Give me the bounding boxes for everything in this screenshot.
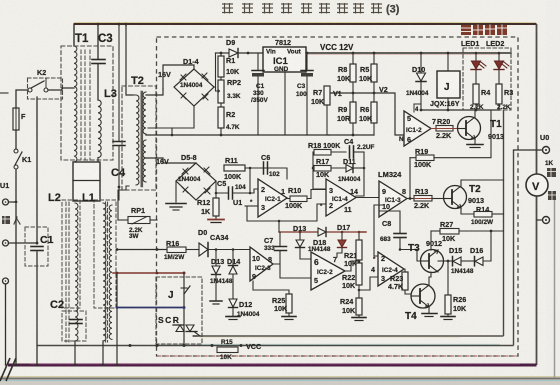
relay J coil box <box>437 71 460 98</box>
wire T1 left column / primary winding <box>73 24 75 46</box>
wire IC1-3 pin10 down to C8 node <box>379 205 400 233</box>
op-amp IC1-2 <box>404 111 431 146</box>
junction dots on vcc line <box>129 344 132 347</box>
resistor R5 <box>373 53 375 64</box>
transistor T2 <box>444 186 467 209</box>
switch K2 (relay contact) <box>28 78 63 99</box>
bridge rectifier D5-8 <box>176 163 216 200</box>
ground under bridge2 <box>166 204 186 211</box>
wire bridge2 right corner to C5 <box>216 181 228 193</box>
capacitor C2 <box>62 311 86 341</box>
wire relay drive bus y=110 <box>421 109 499 111</box>
label 告警工作 (alarm working) <box>461 25 471 35</box>
transistor T1 <box>458 117 481 140</box>
title character 理 <box>353 3 364 14</box>
wire mid line y=135 right part <box>329 134 374 136</box>
op-amp IC2-4 <box>378 252 404 286</box>
T2 core bar <box>141 92 144 186</box>
ground mark 77 at left end of bus <box>0 358 16 381</box>
L1 winding right <box>109 205 112 339</box>
wire SCR to output line <box>193 335 197 337</box>
wire R24 node to IC2-4 pin3 <box>359 277 378 290</box>
wire scr output line y=336 <box>193 335 504 337</box>
dashed box around J contact and SCR <box>156 277 202 344</box>
resistor R9 <box>350 102 356 123</box>
wire terminal2 to C1 column <box>9 242 38 244</box>
title character 电 <box>301 3 312 14</box>
fuse F <box>13 108 19 130</box>
bridge rectifier D1-4 <box>174 69 214 106</box>
wire IC2-2 output to R21 column <box>345 261 359 271</box>
wire IC1-2 pin4 <box>414 104 421 112</box>
wire bridge1 bottom to T2 tap <box>148 106 194 128</box>
wire IC1 GND pin down <box>284 72 286 135</box>
wire D16 up to R27 line <box>483 231 491 261</box>
T2 collector wire up <box>461 180 504 186</box>
T2 secondary winding upper <box>143 92 146 134</box>
wire L1 tap blue to J contact <box>117 307 184 309</box>
wire inner solid line right x=513 <box>513 150 515 346</box>
LED1 <box>475 53 477 60</box>
L1 winding <box>103 203 106 341</box>
wire bottom main bus <box>8 364 537 367</box>
wire IC1-3 output node <box>407 198 414 200</box>
wire bridge2 left corner to ground <box>175 181 177 202</box>
wire C1 column vertical <box>36 97 38 244</box>
capacitor C3 100 at IC1 out <box>306 53 308 70</box>
wire VCC rail <box>306 52 511 54</box>
wire right outer border <box>536 24 538 365</box>
resistor R1 <box>220 53 222 56</box>
wire feedback column x=364 <box>356 152 364 196</box>
resistor R26 <box>447 261 449 295</box>
diode D9 <box>229 49 238 58</box>
label 输 (input) <box>2 216 10 224</box>
title character 净 <box>222 3 233 14</box>
wire top bus drop to T2 primary <box>126 24 133 95</box>
T4 collector to T3 emitter <box>429 272 431 285</box>
op-amp IC2-2 <box>311 252 345 290</box>
wire IC1-4 output to IC1-3 <box>356 190 383 198</box>
wire feedback column x=313 <box>313 152 326 189</box>
wire vcc bottom line y=345.5 <box>37 345 514 347</box>
T1 core dashed lines <box>80 50 82 160</box>
L1 core <box>105 202 107 342</box>
wire inner solid line right x=504 <box>503 110 505 336</box>
wire red top link y=232 <box>279 231 318 233</box>
resistor R4 <box>473 84 479 104</box>
wire T2 mid tap line y=135 <box>146 134 329 136</box>
T1 collector wire <box>474 110 476 117</box>
T3 collector to R27 <box>430 231 432 250</box>
right scan edge line <box>554 196 556 378</box>
wire y232 to R21 top <box>359 231 366 233</box>
wire IC1-3 pin10 left to IC2-4 column <box>374 205 379 256</box>
wire T2 primary bottom down to RP1 <box>118 186 129 220</box>
L2 core <box>65 202 67 342</box>
wire IC2-3 pin9 to R25 <box>253 281 289 294</box>
LED2 <box>498 53 500 60</box>
resistor R3 <box>496 84 502 104</box>
potentiometer RP2 <box>220 77 222 80</box>
title character 源 <box>281 3 292 14</box>
wire L1 tap down <box>116 273 118 365</box>
ground under D12 <box>226 317 240 320</box>
T1 bottom junction box <box>73 162 100 201</box>
wire bridge1 DC+ column to raw rail <box>215 53 217 91</box>
inductor L2 dashed box <box>62 200 80 308</box>
T3 emitter node right <box>438 260 452 262</box>
resistor R8 <box>352 53 354 64</box>
resistor R23 4.7K <box>404 269 405 272</box>
regulator IC1 7812 <box>263 47 306 72</box>
wire 16V AC into bridge1 top vertex <box>163 65 194 89</box>
wire terminal1 to K1 column <box>9 170 17 202</box>
capacitor C6 <box>263 162 265 174</box>
output terminal lower <box>543 217 550 224</box>
wire K1 column down to bus <box>15 204 17 365</box>
wire R2 bottom to mid line <box>220 128 222 135</box>
wire V1 V2 sense line <box>327 93 404 135</box>
wire D9 to IC1 <box>238 52 263 54</box>
wire terminal3 down to bus <box>5 284 7 365</box>
input terminal 1 <box>3 199 9 205</box>
wire L1 bottom to bus <box>102 341 104 365</box>
title character 化 <box>242 3 253 14</box>
wire K1 to fuse <box>15 130 17 149</box>
resistor R10 100K at IC2-1 output <box>287 198 290 200</box>
wire L1 tap red to SCR box <box>113 272 184 274</box>
dashed LED box <box>463 48 511 110</box>
T4 emitter ground <box>428 307 430 313</box>
title character 原 <box>337 3 348 14</box>
transistor T4 <box>411 284 435 308</box>
resistor R6 <box>371 102 377 123</box>
wire R13 to T2 base <box>432 198 444 200</box>
T2 emitter to R14 <box>461 208 474 214</box>
wire top bus from T1 to right border <box>74 23 537 25</box>
input terminal 3 <box>3 278 9 284</box>
diode D12 1N4004 <box>229 299 238 308</box>
label 出 (output) <box>548 191 556 200</box>
wire R27 row <box>431 230 440 232</box>
potentiometer RP1 <box>128 217 150 224</box>
wire U1 input to pin3 <box>245 205 258 207</box>
T1 emitter to ground <box>474 139 476 144</box>
label 入 (input) <box>14 217 20 224</box>
wire IC1-4 pin2 link under IC2-1 <box>247 204 326 221</box>
switch K1 <box>14 165 18 169</box>
wire D0 to IC2-3 <box>208 250 250 257</box>
resistor R7 <box>326 86 328 93</box>
title character 气 <box>319 3 330 14</box>
L2 winding <box>75 203 78 341</box>
inductor L1 dashed box <box>94 200 116 308</box>
wire T2 tap to bridge1 <box>146 89 163 95</box>
transformer T2 dashed box <box>122 86 156 190</box>
junction dots on bus <box>15 364 18 367</box>
transformer T1 dashed box <box>61 46 113 160</box>
op-amp IC2-1 <box>258 179 287 217</box>
bottom scan bands <box>0 376 560 385</box>
wire L2 bottom to bus <box>74 341 76 365</box>
resistor R25 <box>286 294 292 313</box>
capacitor C1 electrolytic 330/350V <box>257 53 259 70</box>
wire C8 node to T3 base <box>400 250 421 262</box>
op-amp IC1-3 <box>379 181 407 217</box>
resistor R11 100K feedback <box>224 165 245 171</box>
label 输 (output) <box>547 168 556 177</box>
input terminal 2 <box>3 240 9 246</box>
capacitor C5 104 <box>228 187 230 199</box>
main dashed enclosure box <box>157 37 519 356</box>
op-amp IC1-4 <box>326 179 356 216</box>
op-amp IC2-3 <box>250 247 273 281</box>
title character 电 <box>262 3 273 14</box>
T2 secondary winding lower <box>143 140 146 182</box>
wire T2 lower tap to bridge2 <box>146 158 196 163</box>
capacitor C1 <box>25 227 48 266</box>
wire fuse up to K2 <box>16 90 27 108</box>
T2 primary winding <box>136 95 139 185</box>
wire K2 to T1 <box>48 88 74 90</box>
voltmeter V <box>526 174 548 196</box>
wire IC2-3 output to IC2-2 pin5 <box>273 264 311 278</box>
ground under R12 <box>215 216 217 219</box>
resistor R2 <box>220 103 222 107</box>
resistor R12 <box>213 198 219 216</box>
title character 图 <box>371 3 382 14</box>
